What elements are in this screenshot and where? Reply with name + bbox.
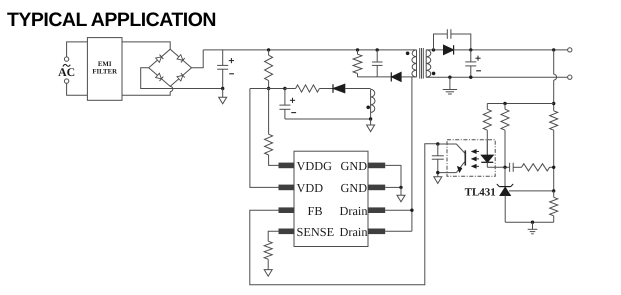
wire DC- rail	[141, 68, 223, 89]
resistor R3 aux	[296, 85, 320, 92]
node earth junction	[531, 221, 534, 224]
svg-text:EMI: EMI	[98, 61, 112, 68]
wire top rail	[203, 49, 416, 51]
transformer T1 secondary	[426, 50, 431, 77]
diode D1 clamp	[391, 72, 401, 81]
IC U1 pins	[279, 163, 386, 235]
node secondary phase dot	[432, 72, 436, 76]
optocoupler phototransistor	[438, 144, 466, 173]
ground earth secondary	[443, 77, 457, 94]
wire	[345, 88, 371, 90]
node rail snubber C	[376, 48, 379, 51]
pin label VDDG	[297, 159, 333, 173]
resistor R9 divider lower	[550, 191, 558, 222]
ground aux	[367, 119, 375, 132]
svg-text:FB: FB	[308, 204, 323, 218]
ground FB	[434, 176, 442, 183]
capacitor C7 comp	[510, 163, 514, 172]
wire TL431 ref	[509, 190, 554, 192]
node FB cap top	[436, 142, 439, 145]
pin label Drain 2	[340, 225, 368, 239]
node output rail	[552, 48, 555, 51]
node divider top	[552, 102, 555, 105]
resistor R7 divider upper	[550, 111, 558, 191]
capacitor C2 VDD	[279, 89, 296, 120]
wire GND1	[385, 165, 401, 187]
capacitor C1 bulk	[217, 50, 234, 89]
TL431 U3	[497, 167, 513, 222]
svg-text:Drain: Drain	[340, 225, 368, 239]
svg-text:AC: AC	[58, 65, 75, 79]
wire secondary top	[426, 49, 443, 51]
title TYPICAL APPLICATION	[7, 9, 216, 31]
wire AC neutral to EMI filter	[67, 83, 88, 95]
node rail snubber R	[356, 48, 359, 51]
wire divider feed	[487, 103, 553, 105]
pin label SENSE	[297, 225, 335, 239]
resistor R2 VDDG	[265, 89, 279, 166]
resistor R10 sense	[264, 241, 272, 259]
wire node A	[487, 166, 509, 168]
svg-text:GND: GND	[341, 181, 368, 195]
node divider mid	[552, 166, 555, 169]
diode D5 aux	[333, 84, 345, 93]
capacitor C6 FB	[432, 144, 444, 176]
wire	[370, 113, 372, 120]
pin label VDD	[297, 181, 324, 195]
wire snubber loop	[434, 34, 471, 50]
output terminal positive	[568, 48, 572, 52]
wire AC hot to EMI filter	[67, 42, 88, 57]
node rail R1	[267, 48, 270, 51]
node return earth	[448, 76, 451, 79]
resistor R8 comp	[522, 164, 550, 171]
EMI filter block	[87, 38, 122, 101]
svg-text:Drain: Drain	[340, 204, 368, 218]
wire EMI to bridge top	[122, 42, 170, 49]
node return cap	[469, 76, 472, 79]
wire drain line	[411, 77, 413, 231]
node GND junction	[399, 186, 402, 189]
wire hop over return	[554, 74, 557, 80]
node VDD cap	[283, 87, 286, 90]
wire Drain1	[385, 209, 412, 211]
wire clamp to primary	[401, 76, 416, 78]
transformer T1 primary	[412, 50, 417, 77]
wire TL431 bottom	[505, 221, 554, 223]
wire GND2	[385, 186, 401, 188]
TL431 label	[465, 186, 496, 198]
wire	[513, 166, 521, 168]
pin label GND 2	[341, 181, 368, 195]
optocoupler U2 box	[447, 140, 495, 177]
wire sense rail upper	[553, 50, 555, 74]
wire output return	[426, 76, 568, 78]
wire aux ground line	[285, 118, 371, 120]
capacitor C5 output	[465, 50, 481, 77]
capacitor C3 snubber	[372, 50, 383, 77]
optocoupler light arrows	[471, 149, 479, 168]
diode D2 output	[444, 45, 454, 54]
ground sense	[264, 269, 272, 276]
wire VDD drop to pin	[250, 89, 279, 188]
wire Drain2	[385, 230, 412, 232]
ground bulk cap	[219, 89, 227, 104]
node R6 top	[503, 102, 506, 105]
resistor R1 startup	[265, 50, 273, 89]
wire FB pin run	[250, 144, 438, 285]
pin label GND 1	[341, 159, 368, 173]
resistor R4 snubber	[353, 50, 362, 77]
resistor R6 bias	[501, 104, 509, 168]
svg-text:TYPICAL APPLICATION: TYPICAL APPLICATION	[7, 9, 216, 31]
ground IC	[397, 187, 405, 201]
node ref junction	[552, 189, 555, 192]
node A junction	[503, 166, 506, 169]
capacitor C4 output snubber	[447, 29, 451, 39]
ground earth TL431	[528, 222, 538, 234]
output terminal negative	[568, 75, 572, 79]
wire	[267, 259, 269, 269]
node drain junction	[410, 209, 413, 212]
wire output positive	[454, 49, 568, 51]
inductor L1 aux winding	[371, 89, 375, 112]
pin label Drain 1	[340, 204, 368, 218]
svg-text:FILTER: FILTER	[92, 69, 117, 76]
wire SENSE	[268, 231, 278, 241]
resistor R5 opto	[483, 104, 491, 156]
transformer T1 core	[420, 48, 424, 79]
bridge rectifier BR1	[149, 49, 192, 86]
wire hop AC over DC- rail	[170, 86, 173, 91]
svg-text:VDD: VDD	[297, 181, 324, 195]
IC U1 body	[294, 151, 368, 246]
wire VDD line	[250, 88, 285, 90]
node VDD line left	[267, 87, 270, 90]
wire EMI to bridge bottom	[122, 92, 170, 96]
optocoupler LED	[481, 140, 493, 168]
node aux phase dot	[366, 106, 370, 110]
wire sense rail lower	[553, 80, 555, 111]
node primary phase dot	[406, 52, 410, 56]
wire aux line	[285, 88, 296, 90]
node FB cap bottom	[436, 171, 439, 174]
wire	[550, 166, 554, 168]
svg-text:VDDG: VDDG	[297, 159, 333, 173]
node output diode cathode	[469, 48, 472, 51]
node DC- junction	[221, 87, 224, 90]
wire snubber bottom	[358, 76, 392, 78]
AC source terminals	[58, 57, 75, 83]
wire	[319, 88, 333, 90]
node secondary top	[432, 48, 435, 51]
svg-text:GND: GND	[341, 159, 368, 173]
pin label FB	[308, 204, 323, 218]
wire DC+ riser	[192, 50, 204, 68]
node aux ground	[369, 117, 372, 120]
svg-text:TL431: TL431	[465, 186, 496, 198]
svg-text:SENSE: SENSE	[297, 225, 335, 239]
